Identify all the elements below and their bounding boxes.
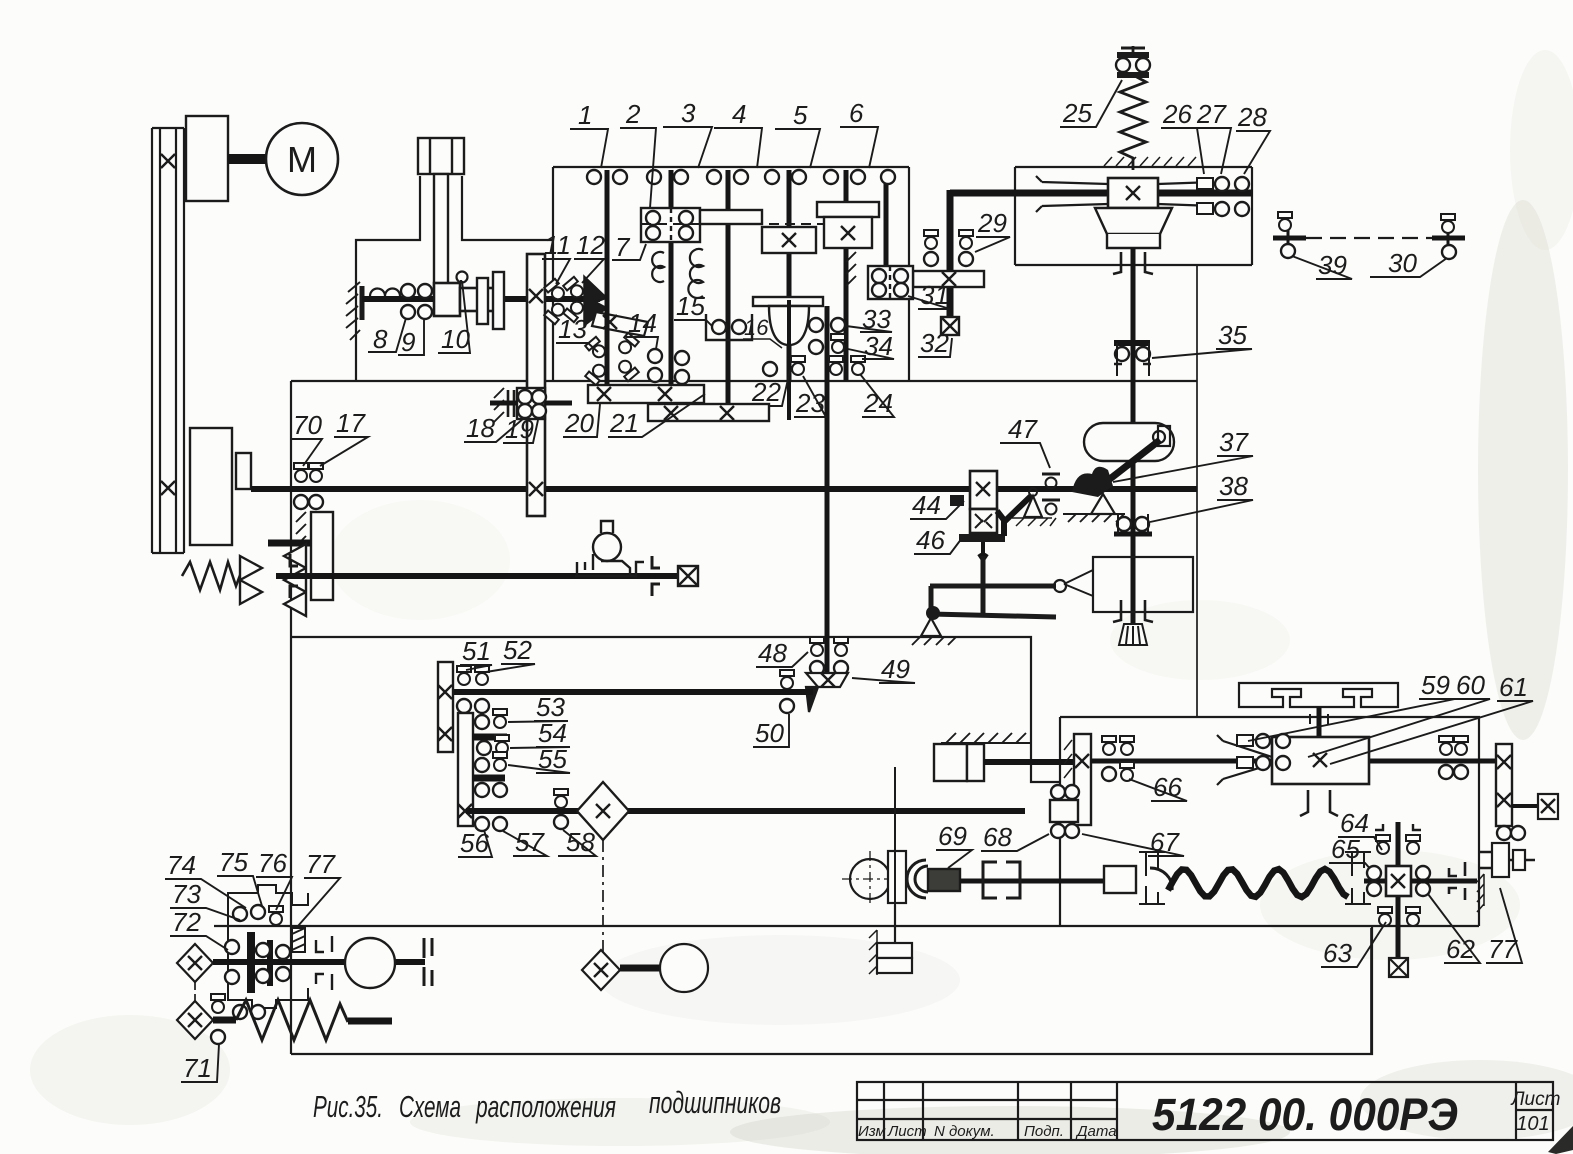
title block frame bbox=[857, 1082, 1553, 1140]
spring curl shaft II bbox=[652, 252, 664, 282]
bearing 24 pair bbox=[829, 356, 865, 375]
right tick of aux shaft bbox=[1432, 236, 1465, 241]
flexible shaft hub bbox=[1104, 866, 1136, 893]
svg-text:Лист: Лист bbox=[1510, 1089, 1561, 1110]
bearing 38 bbox=[1114, 514, 1152, 534]
upper pulley block bbox=[186, 116, 228, 201]
label 30 bbox=[1370, 248, 1447, 278]
cam blob bbox=[1072, 467, 1113, 497]
label 4 bbox=[714, 99, 762, 168]
cross vertical shaft bbox=[1396, 822, 1401, 965]
thrust collar on feed shaft bbox=[290, 554, 298, 598]
centerline wall below box B bbox=[1196, 265, 1198, 717]
left tick of aux shaft bbox=[1273, 236, 1306, 241]
short stub shaft bbox=[268, 540, 311, 547]
label 14 bbox=[626, 308, 658, 349]
belt pulley column bbox=[152, 128, 184, 553]
svg-text:подшипников: подшипников bbox=[649, 1085, 781, 1120]
shaft I bbox=[605, 170, 610, 392]
svg-text:Рис.35.: Рис.35. bbox=[313, 1089, 383, 1124]
svg-text:61: 61 bbox=[1499, 672, 1528, 702]
top right case B walls bbox=[1015, 167, 1252, 265]
bearing 52 bbox=[475, 666, 489, 713]
svg-text:25: 25 bbox=[1062, 98, 1092, 128]
label 76 bbox=[256, 848, 292, 910]
bevel circle 69 bbox=[842, 851, 898, 907]
lever pivot circle bbox=[1029, 488, 1037, 496]
bearing block 18-19 bbox=[517, 388, 545, 419]
label 59 bbox=[1248, 670, 1455, 741]
bearing 56 bbox=[475, 817, 489, 831]
label 21 bbox=[608, 394, 705, 438]
label 33 bbox=[846, 304, 892, 334]
bearing 30 bbox=[1441, 214, 1456, 259]
svg-text:30: 30 bbox=[1388, 248, 1417, 278]
label 71 bbox=[181, 1044, 219, 1083]
coupling with X bbox=[762, 227, 816, 253]
svg-text:18: 18 bbox=[466, 413, 495, 443]
label 49 bbox=[852, 654, 915, 684]
bearing below right plate bbox=[1497, 826, 1525, 840]
svg-text:19: 19 bbox=[505, 414, 534, 444]
middle case bottom wall bbox=[291, 637, 1060, 782]
label 6 bbox=[840, 98, 878, 168]
label 20 bbox=[563, 404, 600, 438]
svg-text:16: 16 bbox=[744, 315, 769, 340]
corner mark bbox=[1548, 1126, 1573, 1154]
bearing 60 bbox=[1256, 734, 1270, 770]
ratchet pawls bbox=[240, 544, 306, 616]
lever from capsule bbox=[1097, 440, 1160, 489]
detent bracket 15 bbox=[706, 314, 752, 340]
cam support triangle bbox=[1091, 494, 1115, 514]
apron gear cluster housing bbox=[228, 885, 308, 1008]
bearing 9 bbox=[418, 284, 432, 319]
label 35 bbox=[1152, 320, 1252, 358]
stub to spring bbox=[213, 1017, 236, 1024]
pipe vertical drop bbox=[947, 190, 954, 320]
detent lever with circle bbox=[575, 521, 644, 576]
label 24 bbox=[860, 374, 894, 418]
svg-text:4: 4 bbox=[732, 99, 746, 129]
screw nut hatched 77 bbox=[292, 928, 305, 952]
svg-text:73: 73 bbox=[172, 879, 201, 909]
wall hatch at input shaft left support bbox=[346, 282, 360, 340]
vertical rod to bearing 48 bbox=[825, 589, 829, 648]
middle case top wall bbox=[291, 380, 1197, 382]
cylinder block bbox=[934, 744, 984, 781]
svg-text:32: 32 bbox=[920, 328, 949, 358]
svg-text:72: 72 bbox=[172, 907, 201, 937]
svg-text:21: 21 bbox=[609, 408, 639, 438]
label 10 bbox=[438, 281, 470, 354]
X mark lower pulley bbox=[161, 481, 175, 495]
label 32 bbox=[918, 328, 952, 358]
gear cluster 54 bbox=[477, 735, 509, 755]
apron gear bars bbox=[247, 932, 255, 993]
ratchet spring bbox=[182, 562, 242, 590]
label 23 bbox=[794, 376, 826, 418]
bevel support rod bbox=[894, 767, 896, 905]
second gear plate bbox=[458, 713, 473, 826]
svg-text:12: 12 bbox=[576, 230, 605, 260]
spring collar bearings bbox=[1116, 58, 1150, 72]
svg-text:24: 24 bbox=[863, 388, 893, 418]
bearing 63 pair bbox=[1378, 907, 1420, 926]
traverse gearbox bbox=[1272, 737, 1369, 784]
flexible wavy shaft bbox=[1168, 869, 1348, 897]
bevel output shaft bbox=[960, 879, 1104, 884]
bearing pair shaft V bbox=[824, 170, 865, 184]
svg-text:69: 69 bbox=[938, 821, 967, 851]
bearing 39 bbox=[1278, 212, 1295, 258]
label 31 bbox=[908, 280, 950, 310]
cone under coupling bbox=[1095, 208, 1172, 248]
spring curl shaft III bbox=[688, 249, 703, 298]
lower diamond coupling bbox=[177, 1001, 213, 1039]
svg-text:11: 11 bbox=[544, 230, 571, 260]
label 72 bbox=[170, 907, 228, 950]
label 51 bbox=[460, 636, 492, 670]
dash centreline between diamonds bbox=[194, 982, 196, 1001]
reversing linkage bbox=[930, 556, 1056, 617]
svg-text:23: 23 bbox=[795, 388, 825, 418]
gear cluster lower rollers bbox=[475, 783, 507, 797]
bearing 48 pairs bbox=[810, 637, 848, 675]
svg-text:29: 29 bbox=[977, 208, 1007, 238]
label 1 bbox=[570, 100, 608, 168]
label 34 bbox=[848, 331, 894, 361]
svg-text:51: 51 bbox=[462, 636, 491, 666]
bearing left of cross bbox=[1367, 866, 1381, 896]
label 64 bbox=[1338, 808, 1382, 850]
halfnut coupling bbox=[424, 938, 432, 986]
label 61 bbox=[1330, 672, 1533, 764]
shaft 33-34 bbox=[825, 306, 830, 675]
label 18 bbox=[464, 413, 524, 443]
vertical selector shaft bbox=[1131, 248, 1136, 646]
coupling box at end of feed shaft bbox=[678, 566, 698, 586]
label 46 bbox=[914, 525, 962, 555]
thrust washer 18 bbox=[508, 390, 514, 417]
svg-text:75: 75 bbox=[219, 847, 248, 877]
linkage support triangle bbox=[921, 618, 941, 636]
svg-text:Схема: Схема bbox=[399, 1089, 461, 1124]
right lower hub bbox=[1480, 843, 1535, 877]
bearing pair shaft IV bbox=[765, 170, 806, 184]
bearing 51 bbox=[457, 666, 471, 713]
svg-text:52: 52 bbox=[503, 635, 532, 665]
gear bar 53-54 bbox=[472, 734, 507, 741]
bearing pair shaft II bbox=[647, 170, 688, 184]
clutch jaws 68 bbox=[983, 862, 1020, 898]
svg-text:расположения: расположения bbox=[475, 1089, 616, 1124]
bell cone 16 bbox=[753, 297, 823, 345]
overload diamond coupling bbox=[577, 782, 629, 840]
tall sliding gear bar bbox=[527, 254, 545, 516]
bearing pair 14 bbox=[648, 349, 662, 382]
top gear case A walls bbox=[553, 167, 909, 381]
fork elbow bbox=[997, 511, 1004, 536]
label 2 bbox=[620, 99, 656, 208]
thrust bracket below box B bbox=[1113, 252, 1153, 274]
bearing 29 left pair bbox=[924, 230, 938, 266]
label 3 bbox=[663, 98, 712, 168]
left support plate bbox=[360, 286, 365, 320]
control pillar cap bbox=[418, 138, 464, 290]
spline marks 13 bbox=[585, 333, 639, 385]
apron thrust brackets bbox=[316, 936, 332, 990]
bearing pair shaft I bbox=[587, 170, 627, 184]
right wing of coupling bbox=[1158, 182, 1214, 206]
bearing pair right of gearbox bottom bbox=[1439, 765, 1468, 779]
bearing 57 bbox=[493, 817, 507, 831]
gear cluster 53 bbox=[475, 709, 507, 729]
handwheel circle bbox=[660, 944, 708, 992]
toothed rack bbox=[1239, 683, 1398, 707]
bearing 66 top row bbox=[1102, 736, 1134, 755]
ground hatch under cam bbox=[1063, 514, 1125, 522]
wall hatch at bearing 18 bbox=[494, 388, 504, 422]
stub shaft at 18 bbox=[490, 401, 572, 406]
coupling cross below pipe bbox=[941, 317, 959, 335]
support wall hatch bbox=[869, 930, 877, 975]
svg-text:101: 101 bbox=[1516, 1113, 1549, 1135]
flexible shaft left joint bbox=[1139, 852, 1172, 904]
bearing 50 lower bbox=[780, 699, 794, 713]
slanted gear bar bbox=[592, 312, 648, 336]
thrust bracket right bbox=[1449, 862, 1465, 900]
bearing 17 bbox=[309, 463, 323, 509]
clutch block 7 rollers bbox=[646, 211, 693, 240]
label 74 bbox=[165, 850, 246, 908]
label 58 bbox=[558, 827, 596, 857]
apron shaft bbox=[213, 959, 425, 965]
lower long wall bbox=[214, 925, 1479, 927]
label 17 bbox=[320, 408, 368, 466]
bearing 59 bbox=[1237, 735, 1253, 768]
label 77 right bbox=[1486, 888, 1522, 964]
svg-text:8: 8 bbox=[373, 324, 388, 354]
svg-text:49: 49 bbox=[881, 654, 910, 684]
label 69 bbox=[936, 821, 972, 868]
svg-text:Подп.: Подп. bbox=[1024, 1123, 1064, 1140]
bevel hub 69 bbox=[928, 869, 960, 891]
label 13 bbox=[556, 314, 598, 352]
label 11 bbox=[542, 230, 571, 284]
label 38 bbox=[1150, 471, 1253, 522]
linkage end circle bbox=[1054, 580, 1066, 592]
apron bearing mid left bbox=[225, 940, 239, 984]
svg-text:Лист: Лист bbox=[887, 1123, 927, 1140]
svg-text:26: 26 bbox=[1162, 99, 1192, 129]
label 66 bbox=[1129, 772, 1187, 802]
feed screw shaft right bbox=[1091, 759, 1504, 764]
label 26 bbox=[1161, 99, 1204, 174]
X marks on sliding gear bbox=[529, 289, 543, 303]
svg-text:68: 68 bbox=[983, 822, 1012, 852]
leadscrew handwheel bbox=[345, 938, 395, 988]
svg-text:Изм: Изм bbox=[858, 1123, 886, 1140]
bearing 58 bbox=[554, 789, 568, 829]
label 62 bbox=[1428, 894, 1480, 964]
label 37 bbox=[1113, 427, 1253, 482]
svg-text:46: 46 bbox=[916, 525, 945, 555]
bevel gear bar 31 bbox=[913, 271, 984, 287]
svg-text:N докум.: N докум. bbox=[934, 1123, 995, 1140]
lower pulley block bbox=[190, 428, 251, 545]
ground hatch under linkage bbox=[908, 637, 956, 645]
svg-text:50: 50 bbox=[755, 718, 784, 748]
svg-text:37: 37 bbox=[1219, 427, 1249, 457]
hatched ledge over cylinder bbox=[941, 733, 1032, 743]
handwheel stub shaft bbox=[620, 965, 660, 972]
lower safety diamond bbox=[582, 950, 620, 990]
svg-text:63: 63 bbox=[1323, 938, 1352, 968]
selector guide box bbox=[1093, 557, 1193, 612]
inner vertical wall bbox=[1059, 717, 1061, 926]
shaft II bbox=[669, 170, 674, 418]
bracket below gearbox bbox=[1300, 790, 1338, 816]
gear plate 66 bbox=[1074, 734, 1091, 825]
label 52 bbox=[486, 635, 535, 672]
left gear plate 51 bbox=[438, 662, 453, 752]
svg-text:38: 38 bbox=[1219, 471, 1248, 501]
ground hatch under pivot bbox=[1012, 518, 1056, 526]
label 54 bbox=[510, 718, 570, 748]
right coupling box bbox=[1538, 794, 1558, 819]
shaft VI bbox=[884, 170, 889, 284]
apron inner rollers bbox=[256, 943, 290, 983]
rack stem bbox=[1317, 707, 1322, 737]
bevel plate bbox=[888, 851, 906, 903]
svg-text:76: 76 bbox=[258, 848, 287, 878]
label 77 left bbox=[298, 849, 340, 926]
svg-text:22: 22 bbox=[751, 377, 781, 407]
thrust bracket on feed shaft bbox=[652, 556, 660, 596]
gear coupling in box B bbox=[1108, 178, 1158, 208]
lower feed shaft bbox=[276, 573, 694, 579]
thrust bracket in guide box bbox=[1113, 600, 1153, 622]
bearing 67 lower bbox=[1051, 824, 1079, 838]
svg-text:28: 28 bbox=[1237, 102, 1267, 132]
svg-text:60: 60 bbox=[1456, 670, 1485, 700]
svg-text:65: 65 bbox=[1331, 834, 1360, 864]
clutch nub 44 bbox=[950, 495, 964, 506]
svg-text:1: 1 bbox=[578, 100, 592, 130]
svg-text:44: 44 bbox=[912, 490, 941, 520]
svg-text:6: 6 bbox=[849, 98, 864, 128]
chevron left of gearbox bbox=[1217, 735, 1272, 785]
bearing pair right of gearbox top bbox=[1439, 736, 1468, 755]
fork lever bbox=[1004, 495, 1032, 522]
flexible shaft right joint bbox=[1345, 852, 1371, 904]
spindle clutch gear 44 bbox=[970, 471, 997, 533]
bearing shaft VI bbox=[881, 170, 895, 184]
label 7 bbox=[612, 232, 646, 262]
bearing 67 upper bbox=[1051, 785, 1079, 799]
spring top collar bbox=[1117, 48, 1149, 75]
svg-text:20: 20 bbox=[564, 408, 594, 438]
svg-text:31: 31 bbox=[920, 280, 949, 310]
shaft IV bbox=[787, 170, 792, 381]
left wing of coupling bbox=[1036, 176, 1108, 212]
label 19 bbox=[503, 414, 538, 444]
traverse spring bbox=[236, 1000, 348, 1040]
detent washer upper 47 bbox=[1042, 474, 1060, 489]
label 15 bbox=[674, 291, 712, 326]
dashed centreline of clutch bbox=[641, 223, 824, 225]
apron lower bearings bbox=[233, 1005, 265, 1019]
motor M bbox=[266, 123, 338, 195]
bearing 26 bbox=[1197, 178, 1213, 214]
svg-text:77: 77 bbox=[306, 849, 336, 879]
main spindle shaft bbox=[251, 486, 1197, 492]
feed output shaft 56-58 bbox=[466, 808, 1025, 814]
svg-text:74: 74 bbox=[167, 850, 196, 880]
label 16 bbox=[743, 315, 782, 348]
shaft III bbox=[726, 170, 731, 418]
power pipe to box B bbox=[950, 190, 1253, 197]
bearing 66 bottom row bbox=[1102, 762, 1134, 781]
label 67 bbox=[1082, 827, 1184, 857]
input diamond coupling bbox=[177, 944, 213, 982]
label 28 bbox=[1236, 102, 1270, 174]
label 53 bbox=[508, 692, 568, 722]
svg-text:47: 47 bbox=[1008, 414, 1038, 444]
wall hatch left of bearing box bbox=[846, 252, 856, 286]
clutch block 7 bbox=[641, 208, 762, 242]
gear block shaft V bbox=[817, 202, 879, 248]
label 29 bbox=[975, 208, 1010, 252]
wall hatch at gear plate 66 bbox=[1064, 740, 1072, 778]
bearing 50 upper bbox=[780, 670, 794, 689]
flange plates bbox=[477, 272, 504, 329]
label 9 bbox=[398, 320, 424, 357]
label 60 bbox=[1308, 670, 1490, 757]
gear cluster 55 bbox=[475, 752, 507, 772]
dash centreline below diamond bbox=[602, 840, 604, 952]
svg-text:5122 00. 000РЭ: 5122 00. 000РЭ bbox=[1152, 1089, 1458, 1140]
label 12 bbox=[574, 230, 605, 283]
pillar stem bbox=[434, 174, 448, 290]
bearing 8 bbox=[401, 284, 415, 319]
label 65 bbox=[1329, 834, 1373, 872]
fork base bar 46 bbox=[959, 534, 1005, 542]
bearing 35 bbox=[1114, 343, 1151, 376]
lower wide gear bar 20 bbox=[588, 385, 704, 403]
splined end bbox=[1119, 624, 1147, 645]
detent washer lower 47 bbox=[1042, 500, 1060, 515]
label 55 bbox=[508, 744, 570, 774]
wedge bracket 49 bbox=[806, 673, 848, 712]
svg-text:9: 9 bbox=[401, 327, 415, 357]
spring 25 bbox=[1120, 46, 1146, 170]
rollers in bracket 15 bbox=[712, 320, 746, 334]
svg-text:59: 59 bbox=[1421, 670, 1450, 700]
label 75 bbox=[217, 847, 262, 906]
hatch on box B roof bbox=[1104, 157, 1196, 166]
lower wide gear bar 21 bbox=[648, 404, 769, 421]
label 70 bbox=[291, 410, 322, 466]
bearing 27 bbox=[1215, 177, 1229, 216]
right stub shaft bbox=[1512, 804, 1540, 808]
right gear plate bbox=[1496, 744, 1512, 826]
svg-text:3: 3 bbox=[681, 98, 696, 128]
worm hub on vertical axis bbox=[1050, 800, 1078, 822]
label 50 bbox=[753, 714, 789, 748]
bearing 29 right pair bbox=[959, 230, 973, 266]
